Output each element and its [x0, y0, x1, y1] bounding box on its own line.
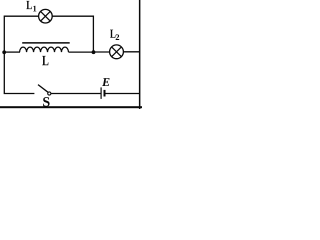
lamp L1: [39, 9, 53, 23]
inductor L coil: [20, 47, 69, 52]
battery E long plate: [100, 87, 102, 99]
wire top-right segment and right drop: [52, 16, 93, 52]
lamp L2: [110, 45, 124, 59]
wire middle-right segment: [69, 51, 94, 53]
label L2 letter: [110, 30, 115, 38]
wire top-left segment: [4, 15, 38, 17]
right frame border: [139, 0, 141, 109]
battery E short plate: [104, 90, 106, 97]
label L inductor: [42, 56, 48, 65]
wire left vertical and bottom-left: [4, 16, 34, 94]
label L2 subscript 2: [116, 34, 120, 40]
wire switch to battery: [51, 93, 101, 95]
label L1 subscript 1: [33, 6, 36, 12]
wire middle-left segment: [4, 51, 20, 53]
wire battery to right border: [106, 93, 141, 95]
node junction left: [2, 50, 6, 54]
inductor core line: [22, 42, 69, 44]
label L1 letter: [26, 1, 32, 9]
bottom frame border: [0, 106, 142, 108]
node junction right: [92, 50, 96, 54]
wire to lamp L2: [94, 51, 110, 53]
switch S contact: [48, 92, 51, 95]
label E: [102, 78, 110, 86]
wire lamp L2 to right border: [123, 51, 139, 53]
label S: [43, 97, 49, 106]
switch S blade: [38, 85, 48, 93]
